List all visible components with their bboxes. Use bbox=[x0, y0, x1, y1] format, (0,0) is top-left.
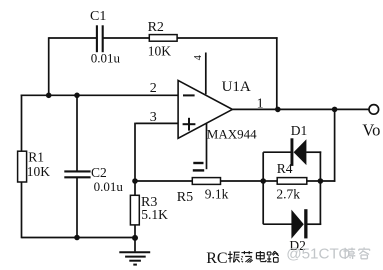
wire: op-amp V+ pin stub (pin 4) bbox=[205, 53, 207, 95]
wire: D2 cathode to right rail bbox=[307, 223, 321, 225]
watermark char 客 bbox=[359, 247, 370, 258]
wire: top branch to D1 cathode bbox=[263, 151, 291, 153]
svg-text:1: 1 bbox=[257, 97, 264, 112]
node: C2 branch / pin-2 row junction bbox=[74, 93, 80, 99]
svg-text:0.01u: 0.01u bbox=[91, 51, 121, 66]
node: R3 / ground row junction bbox=[132, 235, 138, 241]
svg-text:RC: RC bbox=[206, 250, 227, 267]
op-amp U1A (MAX944) triangle bbox=[178, 80, 232, 138]
wire: pin-3 riser down to R5 row bbox=[134, 123, 136, 181]
wire: R5 right to diode-network left node bbox=[220, 180, 263, 182]
svg-text:5.1K: 5.1K bbox=[141, 207, 168, 222]
resistor R4 bbox=[277, 178, 307, 185]
op-amp plus sign bbox=[183, 118, 196, 131]
capacitor C2 bbox=[64, 171, 90, 177]
svg-text:C1: C1 bbox=[90, 9, 106, 24]
wire: D1 anode to right rail bbox=[306, 151, 321, 153]
node: C2 branch / ground row junction bbox=[74, 235, 80, 241]
svg-text:R5: R5 bbox=[177, 190, 193, 205]
diode D1 bbox=[291, 138, 307, 166]
svg-text:4: 4 bbox=[193, 54, 204, 60]
wire: op-amp output (pin 1) row to Vo terminal bbox=[232, 108, 369, 110]
wire: top row left, C1 riser corner to C1 left plate bbox=[49, 37, 96, 39]
svg-text:2.7k: 2.7k bbox=[276, 186, 300, 201]
svg-text:R1: R1 bbox=[28, 149, 44, 164]
wire: drop from R2 row down to output row bbox=[276, 37, 278, 109]
wire: feedback riser from output row bbox=[334, 109, 336, 181]
title char 路 bbox=[267, 251, 279, 262]
title char 振 bbox=[228, 251, 240, 262]
svg-text:R4: R4 bbox=[277, 161, 293, 176]
node: diode network right node bbox=[318, 178, 324, 184]
wire: op-amp V- pin stub bbox=[206, 123, 208, 170]
watermark char 博 bbox=[343, 248, 355, 259]
svg-text:3: 3 bbox=[150, 110, 157, 125]
svg-text:10K: 10K bbox=[148, 43, 172, 58]
wire: C2 branch lower bbox=[76, 178, 78, 238]
wire: C1 right plate to R2 left bbox=[103, 37, 149, 39]
node: feedback drop / output row junction bbox=[275, 107, 281, 113]
op-amp minus sign bbox=[183, 94, 195, 96]
wire: bottom ground row bbox=[22, 237, 136, 239]
resistor R5 bbox=[192, 178, 220, 185]
node: pin-3 riser / R5 / R3 junction bbox=[132, 178, 138, 184]
svg-text:Vo: Vo bbox=[362, 120, 380, 139]
wire: C1 riser down to inverting-input row bbox=[48, 37, 50, 95]
svg-text:9.1k: 9.1k bbox=[205, 187, 229, 202]
svg-text:@51CTO: @51CTO bbox=[286, 245, 350, 262]
ground symbol bbox=[119, 238, 150, 265]
wire: R4 to feedback riser bbox=[307, 180, 336, 182]
wire: bottom branch to D2 anode bbox=[263, 223, 292, 225]
svg-text:2: 2 bbox=[150, 81, 157, 96]
wire: non-inverting input (pin 3) stub bbox=[136, 122, 179, 124]
resistor R3 bbox=[130, 195, 139, 225]
wire: inverting input (pin 2) row bbox=[21, 94, 179, 96]
svg-text:0.01u: 0.01u bbox=[94, 179, 124, 194]
svg-text:D1: D1 bbox=[291, 123, 308, 138]
wire: node to R3 top bbox=[134, 181, 136, 196]
wire: left rail (R1 branch) bbox=[21, 95, 23, 239]
wire: C2 branch upper bbox=[76, 95, 78, 171]
node: C1 riser / pin-2 row junction bbox=[46, 93, 52, 99]
capacitor C1 bbox=[97, 25, 103, 52]
title char 电 bbox=[256, 251, 266, 262]
diode D2 bbox=[291, 209, 307, 239]
wire: node to R5 left bbox=[135, 180, 193, 182]
title char 荡 bbox=[241, 251, 253, 263]
node: feedback riser / output row junction bbox=[332, 107, 338, 113]
wire: diode network left rail bbox=[262, 152, 264, 224]
svg-text:R2: R2 bbox=[148, 20, 164, 35]
resistor R2 bbox=[149, 35, 177, 42]
op-amp V- ground bars bbox=[193, 163, 204, 170]
output terminal Vo bbox=[369, 105, 379, 115]
svg-text:U1A: U1A bbox=[222, 79, 251, 95]
wire: left node to R4 bbox=[263, 180, 277, 182]
wire: R3 bottom to ground row bbox=[134, 225, 136, 239]
svg-text:10K: 10K bbox=[27, 164, 51, 179]
svg-text:MAX944: MAX944 bbox=[207, 126, 257, 141]
resistor R1 bbox=[18, 151, 27, 182]
node: diode network left node bbox=[260, 178, 266, 184]
wire: R2 right to top-right corner bbox=[177, 37, 278, 39]
wire: diode network right rail bbox=[319, 151, 321, 224]
